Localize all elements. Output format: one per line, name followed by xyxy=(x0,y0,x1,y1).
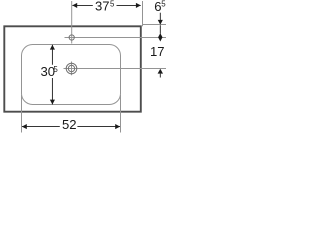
dimension 37.5 label xyxy=(93,0,117,13)
dimension 17 lower shaft xyxy=(159,74,161,78)
drain centerline horizontal (extension line for 17 dim) xyxy=(64,68,167,70)
shaft between 6.5 extension and shared diamond xyxy=(159,25,161,33)
dimension 52 line xyxy=(22,126,120,128)
dimension 37.5 line xyxy=(72,4,140,6)
dimension 37.5 right arrowhead xyxy=(136,3,141,8)
svg-text:37: 37 xyxy=(95,0,110,14)
dimension 37.5 left arrowhead xyxy=(72,3,77,8)
dimension 6.5 leader shaft xyxy=(159,13,161,21)
dimension 30.5 up arrowhead xyxy=(50,45,55,50)
dimension 30.5 lower line xyxy=(51,78,53,104)
basin bowl (inner rounded rectangle) xyxy=(22,45,121,105)
svg-text:52: 52 xyxy=(62,117,77,132)
tap hole centerline horizontal (extension line for 6.5/17 dims) xyxy=(65,37,167,39)
dimension 52 right arrowhead xyxy=(115,124,120,129)
top edge extension line right (for 6.5 dim) xyxy=(142,24,166,26)
svg-text:17: 17 xyxy=(150,44,165,59)
drain inner circle xyxy=(68,65,74,71)
dimension 52 left arrowhead xyxy=(22,124,27,129)
dimension 30.5 upper line xyxy=(51,45,53,65)
svg-text:5: 5 xyxy=(110,0,115,9)
dimension 30.5 label xyxy=(40,65,60,78)
bowl right extension line down (for 52 dim) xyxy=(120,95,122,133)
dimension 6.5 down arrowhead xyxy=(158,20,163,25)
svg-text:5: 5 xyxy=(161,0,166,8)
drain outer circle xyxy=(66,63,77,74)
dimension 30.5 down arrowhead xyxy=(50,100,55,105)
washbasin outer outline xyxy=(4,26,141,111)
tap hole centerline vertical (extension line for 37.5 dim) xyxy=(71,1,73,44)
shared diamond arrow marker at tap hole line xyxy=(158,33,162,41)
drain centerline vertical xyxy=(71,62,73,76)
bowl left extension line down (for 52 dim) xyxy=(21,95,23,133)
tap hole circle xyxy=(69,35,74,40)
dimension 52 label xyxy=(60,119,78,132)
svg-text:5: 5 xyxy=(53,65,58,74)
dimension 17 bottom arrowhead xyxy=(158,69,163,74)
right edge extension line up (for 37.5 dim) xyxy=(142,1,144,26)
